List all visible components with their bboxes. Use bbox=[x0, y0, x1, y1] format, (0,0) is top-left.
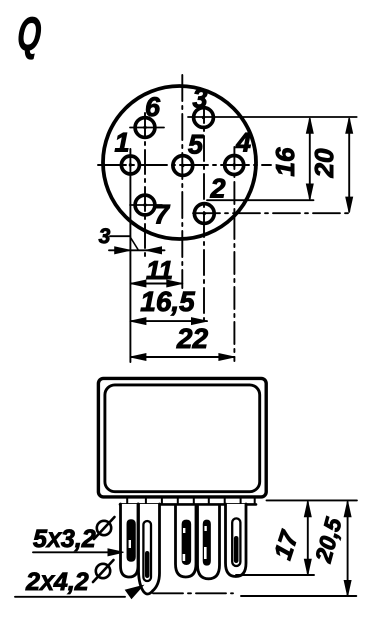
centerline through pins 6 and 7 bbox=[144, 113, 146, 257]
slot texture flecks bbox=[183, 554, 186, 561]
pin 7 horizontal crosshair bbox=[130, 204, 162, 206]
svg-text:5X3,2: 5X3,2 bbox=[33, 525, 96, 553]
pin 6 horizontal crosshair bbox=[130, 127, 164, 129]
middle-left pin outline bbox=[176, 506, 197, 577]
front-left pin slot bbox=[143, 521, 151, 581]
extension line from pin 1 down to dimension lines bbox=[129, 149, 131, 362]
socket body inner outline bbox=[105, 385, 260, 492]
extension line from body bottom right bbox=[267, 499, 357, 501]
dimension 17 line bbox=[307, 502, 309, 574]
dimension 3 leader line bbox=[110, 235, 130, 237]
svg-text:2: 2 bbox=[209, 174, 225, 204]
svg-text:3: 3 bbox=[99, 225, 111, 248]
svg-text:22: 22 bbox=[176, 323, 209, 354]
middle-right pin outline bbox=[198, 506, 220, 579]
socket outline circle (top view) bbox=[103, 86, 256, 239]
dimension 3 arrows bbox=[109, 249, 165, 251]
svg-text:20: 20 bbox=[309, 148, 339, 178]
pin 3 bbox=[194, 108, 214, 128]
svg-text:16,5: 16,5 bbox=[140, 286, 195, 317]
middle-left pin slot (filled) bbox=[182, 520, 190, 564]
dimension 20 line bbox=[348, 119, 350, 212]
leader line for 5X3,2 bbox=[33, 551, 112, 553]
horizontal centerline through pins 1 5 4 bbox=[98, 164, 271, 166]
back-left pin slot (filled) bbox=[127, 520, 135, 561]
centerline from pin 2 to dimension 20 bbox=[193, 212, 351, 214]
svg-text:16: 16 bbox=[270, 147, 300, 176]
pin 5 bbox=[173, 156, 193, 176]
svg-text:11: 11 bbox=[146, 255, 173, 285]
svg-text:6: 6 bbox=[145, 92, 161, 122]
pin center dots bbox=[143, 126, 146, 129]
dimension 16 line bbox=[309, 119, 311, 199]
dimension 16,5 line bbox=[130, 320, 207, 322]
leader line for 2X4,2 bbox=[15, 596, 125, 598]
pin 2 bbox=[194, 204, 214, 224]
svg-text:17: 17 bbox=[269, 527, 305, 563]
svg-text:2X4,2: 2X4,2 bbox=[25, 568, 89, 596]
diameter symbol for 3,2 bbox=[97, 521, 111, 535]
dimension 11 line bbox=[130, 283, 182, 285]
front-left pin outline (long 4,2 pin) bbox=[139, 504, 160, 594]
svg-text:20,5: 20,5 bbox=[310, 514, 347, 566]
dimension 20,5 line bbox=[347, 502, 349, 595]
vertical centerline through pin 5 bbox=[181, 75, 183, 288]
collar ticks bbox=[126, 497, 128, 504]
pin 7 bbox=[135, 195, 155, 215]
svg-text:Q: Q bbox=[16, 7, 43, 60]
right pin outline bbox=[226, 504, 247, 577]
pin 3 horizontal crosshair / extension line for dims 16 and 20 bbox=[188, 116, 357, 118]
diameter symbol for 4,2 bbox=[96, 564, 110, 578]
extension line from pin 4 down to dimension lines bbox=[233, 147, 235, 361]
extension line from pin 2 for dimension 16 bbox=[207, 199, 314, 201]
svg-text:4: 4 bbox=[235, 128, 251, 158]
extension line short pins bottom bbox=[236, 574, 314, 576]
pin 1 bbox=[121, 156, 139, 174]
pin 4 bbox=[225, 156, 244, 175]
svg-text:1: 1 bbox=[114, 128, 129, 158]
pin 6 bbox=[135, 118, 155, 138]
centerline through pins 3 and 2 bbox=[203, 98, 205, 326]
right pin slot bbox=[232, 518, 240, 566]
socket body outer outline (side view) bbox=[98, 378, 266, 497]
svg-text:7: 7 bbox=[154, 200, 171, 230]
pin collar line under body bbox=[120, 503, 256, 506]
bottom reference line (long pin tips, 20,5) bbox=[153, 592, 233, 594]
middle-right pin slot (filled) bbox=[204, 520, 211, 565]
svg-text:5: 5 bbox=[188, 130, 204, 160]
svg-text:3: 3 bbox=[192, 84, 207, 114]
back-left pin outline bbox=[121, 504, 139, 577]
dimension 22 line bbox=[130, 356, 234, 358]
